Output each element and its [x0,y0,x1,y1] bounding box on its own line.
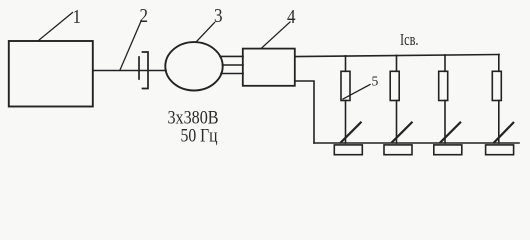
svg-text:5: 5 [372,74,379,89]
svg-text:1: 1 [73,6,82,28]
svg-text:50 Гц: 50 Гц [181,126,218,146]
svg-text:2: 2 [140,5,149,27]
svg-text:4: 4 [287,6,296,28]
svg-text:3х380В: 3х380В [168,108,219,128]
svg-text:3: 3 [214,5,223,27]
svg-text:Iсв.: Iсв. [400,30,419,49]
